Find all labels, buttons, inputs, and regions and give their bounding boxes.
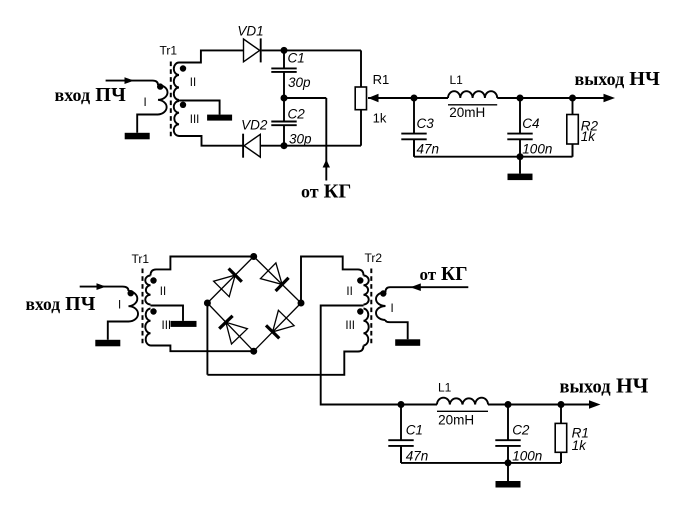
wire: Tr1(bottom) winding I to ground xyxy=(108,322,129,340)
svg-text:L1: L1 xyxy=(438,381,452,395)
wire: L1 to node E xyxy=(497,97,520,99)
ground (bottom Tr1 primary) xyxy=(95,340,120,347)
capacitor C1 (top) xyxy=(283,50,285,68)
arrow: from KG (bottom, pointing left) xyxy=(410,283,421,291)
Tr1(bottom) winding I phase dot xyxy=(128,290,134,296)
arrow: from KG (top, pointing up) xyxy=(323,160,330,168)
svg-text:20mH: 20mH xyxy=(449,105,485,120)
ground (top Tr1 primary) xyxy=(125,133,150,140)
svg-text:C2: C2 xyxy=(512,423,530,438)
svg-text:вход ПЧ: вход ПЧ xyxy=(26,293,96,315)
capacitor C2 (top) xyxy=(283,98,285,122)
resistor R1 (potentiometer, top) xyxy=(355,87,366,110)
transformer Tr1 (top) core xyxy=(170,62,172,140)
svg-text:Tr1: Tr1 xyxy=(132,252,150,266)
node F (R2 top / output) xyxy=(569,95,576,102)
diode VD1 xyxy=(244,39,260,62)
svg-text:1k: 1k xyxy=(572,438,588,453)
arrow: input direction (top) xyxy=(125,77,135,84)
wire: KG injection vertical xyxy=(325,98,327,181)
Tr2 winding II phase dot xyxy=(357,277,363,283)
Tr2 winding I phase dot xyxy=(380,290,386,296)
node D (C3 top) xyxy=(411,95,418,102)
svg-text:1k: 1k xyxy=(373,111,387,126)
wire: Tr2 center tap to filter xyxy=(321,306,437,405)
node: ring bottom xyxy=(250,348,257,355)
svg-text:II: II xyxy=(346,286,352,298)
node E (C4 top) xyxy=(517,95,524,102)
wire: ring edge L-T xyxy=(207,257,253,304)
svg-text:II: II xyxy=(160,286,166,298)
svg-text:47n: 47n xyxy=(406,448,429,463)
node H (C1 bottom-filter top) xyxy=(398,401,405,408)
wire: node I to node J xyxy=(508,404,561,406)
wire: bottom rail (bottom filter) xyxy=(400,446,402,463)
svg-text:II: II xyxy=(190,77,196,89)
wire: VD2 to node C xyxy=(260,145,361,147)
wire: node A to R1 top xyxy=(360,50,362,87)
svg-text:III: III xyxy=(162,320,172,332)
Tr1(top) winding I phase dot xyxy=(157,83,163,89)
capacitor C1 (bottom filter) xyxy=(400,405,402,441)
wire: output (bottom) xyxy=(561,404,591,406)
net: IF input (top circuit) xyxy=(106,80,153,82)
inductor L1 (top) xyxy=(448,91,497,98)
svg-text:I: I xyxy=(118,300,121,312)
wire: ring edge T-R xyxy=(254,257,301,304)
diode ring D4 (bottom to left) xyxy=(226,322,248,344)
Tr2 winding III xyxy=(364,309,369,346)
wire: node E to node F xyxy=(520,97,573,99)
diode VD2 xyxy=(244,134,260,157)
svg-text:100n: 100n xyxy=(522,142,552,157)
svg-text:C4: C4 xyxy=(522,116,539,131)
diode ring D1 (left to top) xyxy=(214,275,236,297)
Tr1(top) winding II xyxy=(174,63,179,101)
node A (VD1 cathode / C1 top) xyxy=(281,47,288,54)
svg-text:L1: L1 xyxy=(450,73,464,87)
node I (C2 bottom-filter top) xyxy=(505,401,512,408)
ground (top Tr1 center tap) xyxy=(207,115,232,121)
svg-text:от КГ: от КГ xyxy=(420,264,468,285)
wire: ring left vertex drop xyxy=(206,303,208,375)
wire: node D to L1 xyxy=(414,97,448,99)
svg-text:1k: 1k xyxy=(581,129,597,144)
transformer Tr2 core xyxy=(370,269,372,347)
Tr1(top) winding II phase dot xyxy=(180,65,186,71)
svg-text:C3: C3 xyxy=(417,116,435,131)
arrow: R1 wiper xyxy=(368,94,379,102)
node C (VD2 anode / C2 bottom) xyxy=(281,142,288,149)
wire: Tr1(top) winding I to ground xyxy=(137,115,158,133)
diode ring D2 (top to right) xyxy=(261,263,283,285)
wire: R1 wiper to node D xyxy=(368,97,414,99)
svg-text:30p: 30p xyxy=(289,131,312,146)
svg-text:от КГ: от КГ xyxy=(301,181,351,203)
Tr1(bottom) winding III phase dot xyxy=(150,308,156,314)
wire: Tr2 winding III to ring left drop xyxy=(207,346,363,375)
Tr1(top) winding III xyxy=(174,101,179,136)
transformer Tr1 (bottom) core xyxy=(142,269,144,347)
svg-text:вход ПЧ: вход ПЧ xyxy=(55,84,126,106)
wire: Tr1(bottom) center tap to ground xyxy=(151,306,184,321)
arrow: output (bottom) xyxy=(589,400,601,408)
Tr1(bottom) winding II phase dot xyxy=(150,277,156,283)
capacitor C2 (bottom filter) xyxy=(507,405,509,441)
svg-text:выход НЧ: выход НЧ xyxy=(560,374,649,398)
svg-text:выход НЧ: выход НЧ xyxy=(575,68,661,90)
node G (filter ground node, top) xyxy=(517,153,524,160)
node: ring top xyxy=(250,253,257,260)
ground (bottom filter) xyxy=(507,463,509,481)
svg-text:III: III xyxy=(190,114,200,126)
wire: ring right vertex to Tr2 winding II xyxy=(301,257,364,304)
wire: VD1 to node A xyxy=(262,49,361,51)
wire: R1 bottom to node C rail xyxy=(360,110,362,146)
svg-text:I: I xyxy=(391,303,394,315)
wire: Tr2 winding I to ground xyxy=(386,320,408,339)
wire: Tr1(top) winding III bottom to VD2 xyxy=(179,136,243,146)
node: ring left xyxy=(204,300,211,307)
ground (Tr2 secondary) xyxy=(395,339,420,346)
ground (bottom Tr1 center tap) xyxy=(171,321,197,327)
capacitor C3 xyxy=(413,98,415,134)
svg-text:100n: 100n xyxy=(512,448,542,463)
Tr1(top) winding III phase dot xyxy=(180,102,186,108)
wire: Tr1(top) center tap to ground xyxy=(179,101,220,115)
Tr2 winding III phase dot xyxy=(357,308,363,314)
svg-text:VD1: VD1 xyxy=(237,23,263,38)
svg-text:C1: C1 xyxy=(406,423,423,438)
resistor R1 (bottom filter) xyxy=(560,405,562,424)
wire: Tr1(bottom) winding II top to ring top xyxy=(151,257,254,276)
Tr2 winding II xyxy=(364,276,369,305)
wire: output (top) xyxy=(573,97,606,99)
inductor L1 (bottom) xyxy=(437,398,488,405)
wire: ring edge B-L xyxy=(207,303,253,351)
svg-text:III: III xyxy=(345,320,355,332)
net: IF input (bottom circuit) xyxy=(80,286,123,288)
svg-text:20mH: 20mH xyxy=(438,413,474,428)
wire: L1 to node I xyxy=(488,404,508,406)
Tr1(bottom) winding I xyxy=(123,287,129,291)
svg-text:C1: C1 xyxy=(288,51,305,66)
wire: bottom rail (top filter) xyxy=(413,139,415,156)
wire: Tr1(bottom) winding III bottom to ring bottom xyxy=(151,346,254,352)
Tr1(bottom) winding II xyxy=(145,276,150,305)
arrow: output (top) xyxy=(604,94,616,102)
svg-text:47n: 47n xyxy=(417,142,440,157)
Tr1(bottom) winding III xyxy=(145,309,150,346)
wire: node B to KG drop xyxy=(284,97,326,99)
arrow: input direction (bottom) xyxy=(97,283,107,290)
diode ring D3 (right to bottom) xyxy=(273,310,295,332)
svg-text:Tr1: Tr1 xyxy=(160,44,178,58)
wire: ring edge R-B xyxy=(254,303,301,351)
ground (top filter) xyxy=(519,157,521,174)
svg-text:I: I xyxy=(144,97,147,109)
node J (R1 top / output, bottom) xyxy=(558,401,565,408)
node K (filter ground node, bottom) xyxy=(505,459,512,466)
svg-text:30p: 30p xyxy=(288,75,311,90)
node: ring right xyxy=(298,300,305,307)
node B (C1/C2 junction) xyxy=(281,95,288,102)
svg-text:C2: C2 xyxy=(288,107,306,122)
Tr2 winding I xyxy=(386,287,469,292)
resistor R2 xyxy=(572,98,574,115)
capacitor C4 xyxy=(519,98,521,134)
svg-text:R1: R1 xyxy=(373,72,390,87)
Tr1(top) winding I xyxy=(153,81,159,85)
svg-text:VD2: VD2 xyxy=(241,118,268,133)
wire: Tr1(top) winding II top to VD1 xyxy=(179,50,244,62)
svg-text:Tr2: Tr2 xyxy=(365,251,383,265)
